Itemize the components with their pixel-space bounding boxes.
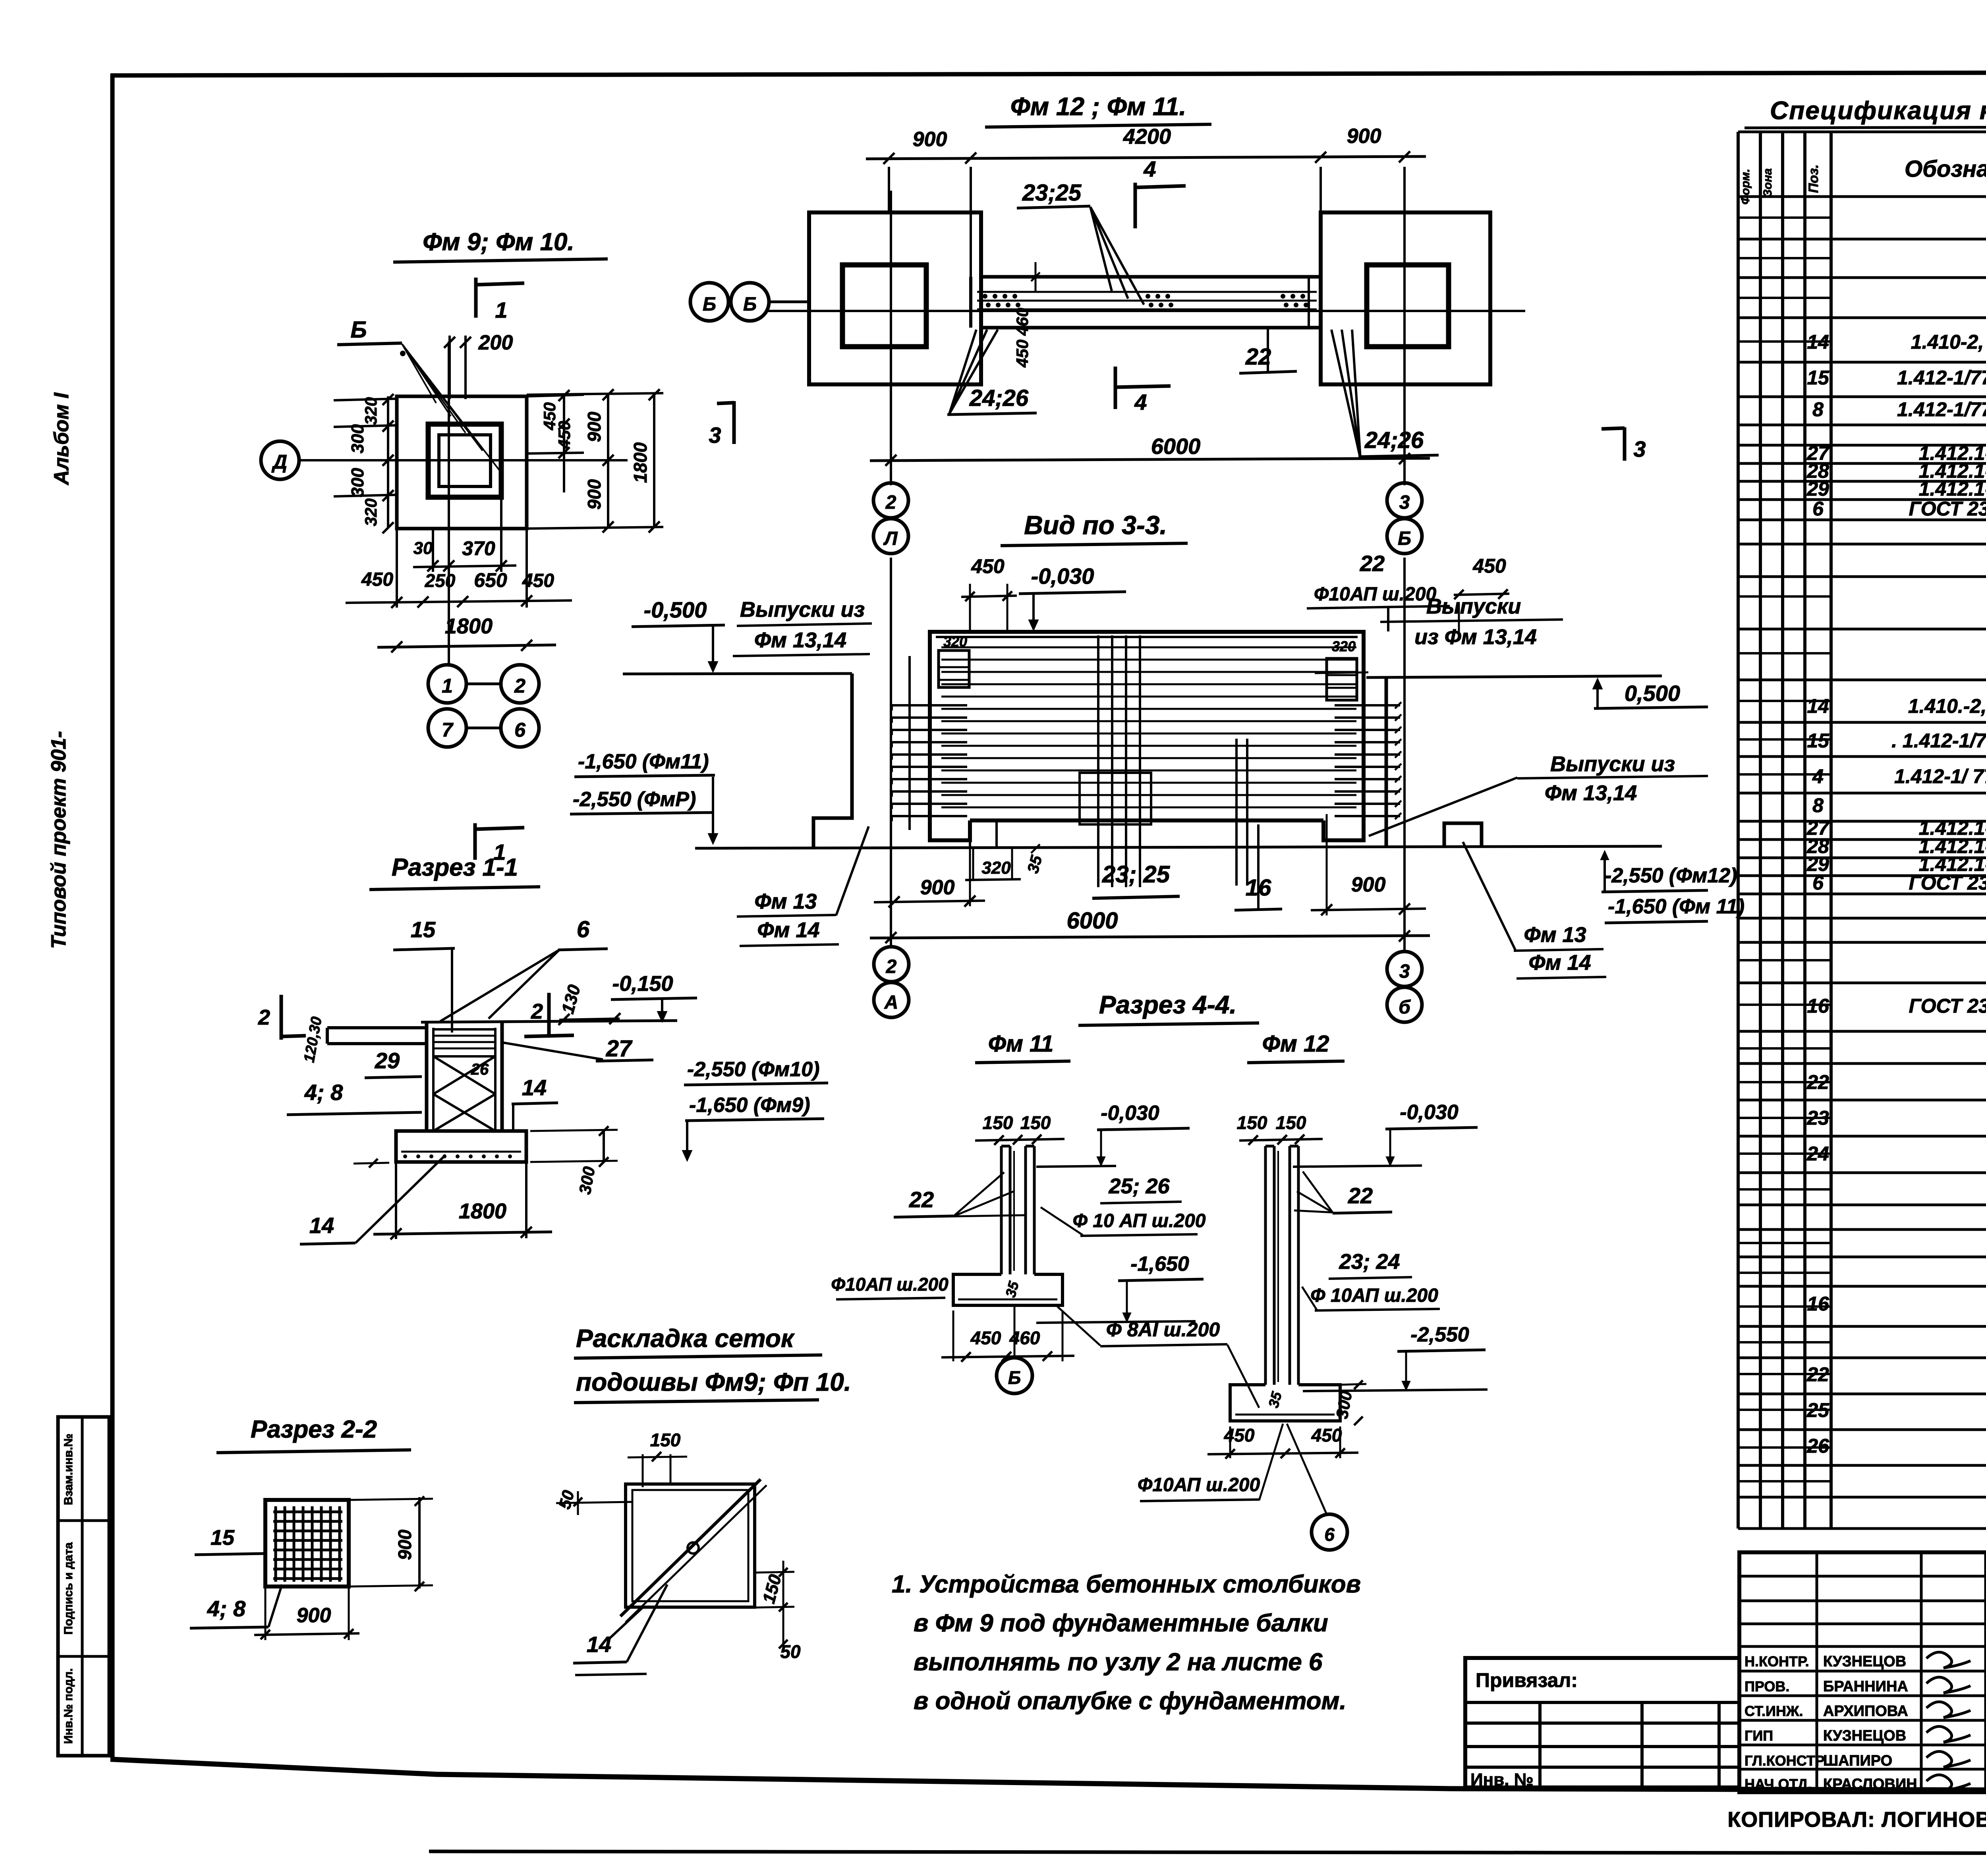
plan Фм9 footing outline bbox=[397, 396, 527, 529]
svg-text:320: 320 bbox=[1332, 638, 1356, 654]
circles 3 Б bbox=[1387, 483, 1422, 518]
svg-text:450: 450 bbox=[970, 1328, 1001, 1348]
Фм13 outline left bbox=[813, 674, 852, 847]
svg-text:6: 6 bbox=[1324, 1524, 1335, 1545]
svg-text:25: 25 bbox=[1806, 1399, 1830, 1421]
svg-text:-2,550: -2,550 bbox=[1410, 1323, 1469, 1346]
vertical bars center group bbox=[1097, 635, 1099, 887]
Фм13 outline right bbox=[1385, 677, 1388, 847]
svg-text:4: 4 bbox=[1812, 765, 1824, 787]
section mark 4 (top) bbox=[1134, 183, 1137, 228]
svg-text:900: 900 bbox=[297, 1604, 331, 1627]
svg-text:200: 200 bbox=[478, 331, 513, 354]
svg-text:15: 15 bbox=[211, 1526, 235, 1550]
svg-text:35: 35 bbox=[1002, 1279, 1022, 1299]
svg-text:Фм 14: Фм 14 bbox=[1528, 951, 1591, 975]
upper level line 0.500 right bbox=[1366, 676, 1662, 677]
svg-text:СТ.ИНЖ.: СТ.ИНЖ. bbox=[1745, 1703, 1803, 1719]
svg-text:900: 900 bbox=[1351, 873, 1386, 896]
svg-text:Н.КОНТР.: Н.КОНТР. bbox=[1745, 1653, 1809, 1669]
svg-text:900: 900 bbox=[920, 876, 955, 899]
svg-text:Фм 12: Фм 12 bbox=[1262, 1031, 1329, 1057]
svg-text:КРАСЛОВИН: КРАСЛОВИН bbox=[1823, 1776, 1917, 1793]
svg-text:Фм 13: Фм 13 bbox=[754, 890, 817, 913]
right pad plan bbox=[1321, 212, 1490, 384]
svg-text:-2,550 (ФмР): -2,550 (ФмР) bbox=[573, 788, 696, 811]
svg-text:320: 320 bbox=[361, 397, 380, 425]
svg-text:300: 300 bbox=[575, 1165, 598, 1196]
spec table grid bbox=[1737, 132, 1740, 1529]
Фм11 wall plates bbox=[1000, 1146, 1003, 1274]
section mark 2 (left) bbox=[280, 995, 283, 1040]
svg-text:24: 24 bbox=[1806, 1143, 1829, 1165]
svg-text:Фм 9; Фм 10.: Фм 9; Фм 10. bbox=[423, 228, 574, 256]
circles 3 б (bottom) bbox=[1387, 952, 1422, 986]
svg-text:14: 14 bbox=[522, 1075, 547, 1100]
circles 2 А (bottom) bbox=[874, 947, 909, 982]
top dimension line 900 4200 900 bbox=[866, 156, 1426, 159]
svg-text:ПРОВ.: ПРОВ. bbox=[1745, 1678, 1789, 1695]
svg-text:23;25: 23;25 bbox=[1022, 180, 1082, 206]
mesh square bbox=[265, 1500, 349, 1586]
svg-text:27: 27 bbox=[606, 1036, 633, 1062]
svg-text:ГИП: ГИП bbox=[1745, 1727, 1773, 1744]
page bottom edge line bbox=[429, 1851, 1986, 1854]
circles Б Б (top) bbox=[690, 283, 728, 321]
svg-text:-0,150: -0,150 bbox=[612, 972, 673, 996]
Фм12 wall plates bbox=[1264, 1146, 1267, 1385]
svg-text:23: 23 bbox=[1806, 1107, 1829, 1129]
svg-text:А: А bbox=[884, 992, 898, 1013]
svg-text:16: 16 bbox=[1807, 1293, 1830, 1315]
svg-text:Раскладка сеток: Раскладка сеток bbox=[576, 1324, 795, 1353]
svg-text:450: 450 bbox=[1472, 555, 1506, 577]
svg-text:АРХИПОВА: АРХИПОВА bbox=[1823, 1703, 1908, 1720]
svg-text:6: 6 bbox=[1812, 872, 1824, 894]
svg-text:150: 150 bbox=[1276, 1112, 1306, 1133]
column top line bbox=[421, 1021, 677, 1022]
svg-text:22: 22 bbox=[1806, 1071, 1829, 1093]
svg-text:4: 4 bbox=[1143, 156, 1156, 181]
svg-text:22: 22 bbox=[909, 1187, 934, 1212]
svg-text:подошвы Фм9; Фп 10.: подошвы Фм9; Фп 10. bbox=[576, 1368, 851, 1396]
svg-text:15: 15 bbox=[1807, 730, 1830, 752]
upper level line -0.500 left bbox=[623, 674, 852, 674]
svg-text:-0,500: -0,500 bbox=[644, 597, 707, 622]
title block: привязал table bbox=[1465, 1658, 1739, 1787]
svg-text:Фм 11: Фм 11 bbox=[988, 1031, 1054, 1057]
svg-text:8: 8 bbox=[1812, 794, 1824, 816]
svg-text:320: 320 bbox=[981, 858, 1011, 878]
column X bracing bbox=[433, 1056, 495, 1094]
section mark 3 (right) bbox=[1602, 428, 1625, 429]
svg-text:4: 4 bbox=[1134, 390, 1147, 415]
plan horizontal axis bbox=[767, 310, 1525, 312]
svg-text:ГОСТ 23279-78: ГОСТ 23279-78 bbox=[1909, 995, 1986, 1017]
svg-text:НАЧ.ОТД.: НАЧ.ОТД. bbox=[1745, 1776, 1812, 1792]
svg-text:в Фм 9 под фундаментные балки: в Фм 9 под фундаментные балки bbox=[914, 1610, 1328, 1637]
svg-text:4200: 4200 bbox=[1123, 125, 1171, 149]
svg-text:Выпуски из: Выпуски из bbox=[1550, 752, 1675, 776]
svg-text:250: 250 bbox=[425, 570, 456, 591]
Фм11 footing bbox=[953, 1274, 1063, 1305]
svg-text:Разрез 2-2: Разрез 2-2 bbox=[251, 1416, 377, 1443]
svg-text:450: 450 bbox=[1224, 1425, 1255, 1446]
svg-text:3: 3 bbox=[1399, 961, 1410, 982]
svg-text:3: 3 bbox=[709, 423, 721, 448]
svg-text:Зона: Зона bbox=[1761, 168, 1774, 197]
diagonal bbox=[620, 1479, 761, 1616]
svg-text:150: 150 bbox=[1020, 1112, 1051, 1133]
svg-text:370: 370 bbox=[462, 537, 495, 560]
svg-text:900: 900 bbox=[394, 1529, 415, 1560]
svg-text:24;26: 24;26 bbox=[1364, 427, 1424, 453]
section mark 1 (top) bbox=[474, 278, 478, 318]
svg-text:Б: Б bbox=[703, 294, 716, 315]
svg-text:460: 460 bbox=[1013, 308, 1032, 336]
svg-text:6: 6 bbox=[514, 719, 526, 741]
svg-text:1800: 1800 bbox=[630, 442, 651, 483]
svg-text:300: 300 bbox=[348, 424, 367, 454]
svg-text:-0,030: -0,030 bbox=[1101, 1102, 1159, 1125]
svg-text:6: 6 bbox=[577, 917, 590, 942]
axes verticals bbox=[890, 558, 892, 947]
svg-text:1.410.-2, Вып.1: 1.410.-2, Вып.1 bbox=[1908, 695, 1986, 717]
svg-text:15: 15 bbox=[1807, 367, 1830, 389]
svg-text:450: 450 bbox=[971, 555, 1005, 577]
svg-text:35: 35 bbox=[1024, 853, 1045, 875]
dowel verticals below slab bbox=[969, 820, 971, 848]
svg-text:2: 2 bbox=[885, 492, 896, 513]
footing bbox=[396, 1131, 526, 1162]
svg-text:120,30: 120,30 bbox=[301, 1015, 325, 1064]
svg-text:Выпуски: Выпуски bbox=[1426, 594, 1521, 618]
svg-text:14: 14 bbox=[587, 1632, 611, 1657]
svg-text:30: 30 bbox=[413, 538, 433, 558]
svg-text:22: 22 bbox=[1348, 1183, 1373, 1208]
svg-text:Фм 13: Фм 13 bbox=[1524, 923, 1586, 947]
svg-text:Ф 8АI ш.200: Ф 8АI ш.200 bbox=[1106, 1318, 1220, 1341]
svg-text:1.412.1-4.080: 1.412.1-4.080 bbox=[1919, 478, 1986, 500]
svg-text:Ф10АП ш.200: Ф10АП ш.200 bbox=[1138, 1475, 1260, 1496]
svg-text:Л: Л bbox=[883, 528, 898, 549]
svg-text:КУЗНЕЦОВ: КУЗНЕЦОВ bbox=[1823, 1653, 1906, 1670]
svg-text:900: 900 bbox=[913, 128, 947, 151]
svg-text:900: 900 bbox=[584, 411, 605, 442]
svg-text:б: б bbox=[1399, 997, 1411, 1018]
svg-text:450: 450 bbox=[555, 421, 574, 449]
right dim chain 450 450 bbox=[527, 395, 584, 396]
svg-text:6000: 6000 bbox=[1066, 908, 1118, 934]
svg-text:1. Устройства бетонных столби: 1. Устройства бетонных столбиков bbox=[892, 1571, 1361, 1598]
plan Фм9 axis lines bbox=[299, 459, 564, 461]
svg-text:Ф10АП ш.200: Ф10АП ш.200 bbox=[831, 1274, 949, 1295]
svg-text:1.412-1/77, Вып.3: 1.412-1/77, Вып.3 bbox=[1897, 367, 1986, 389]
svg-text:из Фм 13,14: из Фм 13,14 bbox=[1414, 625, 1537, 649]
right pad column square bbox=[1367, 265, 1449, 347]
svg-text:23; 24: 23; 24 bbox=[1339, 1250, 1400, 1274]
svg-text:1800: 1800 bbox=[445, 614, 493, 638]
svg-text:выполнять по узлу 2 на листе 6: выполнять по узлу 2 на листе 6 bbox=[914, 1648, 1323, 1676]
right rebar stubs bbox=[1335, 704, 1400, 706]
title block: signature table bbox=[1739, 1552, 1986, 1792]
svg-text:25; 26: 25; 26 bbox=[1108, 1174, 1170, 1198]
corner beam box left (320) bbox=[939, 650, 969, 687]
svg-text:Инв. №: Инв. № bbox=[1470, 1770, 1534, 1789]
left dim chain 320 300 300 320 bbox=[387, 396, 389, 529]
section mark 1 (bottom) bbox=[473, 823, 477, 860]
svg-text:Ф 10АП ш.200: Ф 10АП ш.200 bbox=[1310, 1285, 1438, 1306]
mesh grid bbox=[274, 1506, 277, 1582]
svg-text:-0,030: -0,030 bbox=[1031, 564, 1094, 589]
svg-text:Подпись и дата: Подпись и дата bbox=[62, 1542, 75, 1635]
svg-text:Привязал:: Привязал: bbox=[1476, 1669, 1578, 1691]
svg-text:Разрез 4-4.: Разрез 4-4. bbox=[1099, 990, 1236, 1019]
svg-text:Фм 12 ; Фм 11.: Фм 12 ; Фм 11. bbox=[1010, 92, 1186, 121]
svg-text:ГОСТ 23279-78: ГОСТ 23279-78 bbox=[1909, 872, 1986, 894]
right dim chain 900 900 bbox=[607, 393, 609, 528]
svg-text:ГОСТ 23279-78: ГОСТ 23279-78 bbox=[1909, 498, 1986, 520]
left rebar stubs bbox=[892, 704, 967, 706]
svg-text:23; 25: 23; 25 bbox=[1102, 861, 1171, 888]
svg-text:2: 2 bbox=[886, 956, 897, 977]
svg-text:50: 50 bbox=[555, 1488, 578, 1511]
svg-text:Ф 10 АП ш.200: Ф 10 АП ш.200 bbox=[1073, 1210, 1206, 1231]
bars detail box bbox=[1080, 773, 1151, 824]
svg-text:Типовой проект 901-: Типовой проект 901- bbox=[47, 731, 70, 949]
svg-text:2: 2 bbox=[514, 675, 525, 697]
plan vertical axes bbox=[890, 191, 892, 485]
beam section hatch in column bbox=[433, 1029, 495, 1056]
svg-text:Фм 13,14: Фм 13,14 bbox=[754, 628, 846, 652]
corner beam box right (320) bbox=[1327, 658, 1357, 700]
svg-text:БРАННИНА: БРАННИНА bbox=[1823, 1678, 1908, 1695]
svg-text:900: 900 bbox=[584, 479, 605, 510]
svg-text:Ф10АП ш.200: Ф10АП ш.200 bbox=[1314, 584, 1437, 605]
svg-text:7: 7 bbox=[442, 719, 454, 741]
page frame border bbox=[110, 74, 115, 1758]
svg-text:150: 150 bbox=[759, 1572, 785, 1606]
svg-text:Б: Б bbox=[743, 294, 757, 315]
svg-text:3: 3 bbox=[1633, 436, 1646, 461]
svg-text:16: 16 bbox=[1807, 995, 1830, 1017]
beam rebar dots bbox=[983, 294, 987, 299]
svg-text:Вид по 3-3.: Вид по 3-3. bbox=[1024, 510, 1167, 540]
svg-text:450: 450 bbox=[1311, 1425, 1342, 1446]
svg-text:1: 1 bbox=[442, 675, 453, 697]
svg-text:1.410-2, Вып.1: 1.410-2, Вып.1 bbox=[1911, 331, 1986, 353]
svg-text:2: 2 bbox=[258, 1006, 270, 1029]
svg-text:Д: Д bbox=[271, 451, 287, 473]
svg-text:3: 3 bbox=[1399, 492, 1410, 513]
Фм12 circle 6 bbox=[1312, 1514, 1347, 1550]
svg-text:320: 320 bbox=[361, 498, 380, 526]
svg-text:в одной опалубке с фундаментом: в одной опалубке с фундаментом. bbox=[914, 1687, 1347, 1715]
slab outline bbox=[930, 632, 1364, 840]
svg-text:-1,650: -1,650 bbox=[1130, 1253, 1189, 1276]
svg-text:29: 29 bbox=[1806, 478, 1829, 500]
section mark 2 (right) bbox=[547, 993, 551, 1037]
svg-text:2: 2 bbox=[531, 1000, 543, 1023]
svg-text:6: 6 bbox=[1812, 498, 1824, 520]
svg-text:300: 300 bbox=[1332, 1390, 1355, 1420]
svg-text:1800: 1800 bbox=[459, 1199, 506, 1223]
circles 1 2 7 6 bbox=[428, 665, 466, 703]
svg-text:КОПИРОВАЛ: ЛОГИНОВА: КОПИРОВАЛ: ЛОГИНОВА bbox=[1727, 1808, 1986, 1832]
svg-text:15: 15 bbox=[411, 917, 436, 942]
connecting beam bbox=[981, 275, 1321, 279]
svg-text:24;26: 24;26 bbox=[969, 385, 1029, 411]
svg-text:650: 650 bbox=[474, 569, 507, 591]
svg-text:14: 14 bbox=[309, 1213, 334, 1238]
svg-text:-1,650 (Фм9): -1,650 (Фм9) bbox=[689, 1094, 810, 1117]
svg-text:35: 35 bbox=[1265, 1390, 1285, 1409]
svg-text:900: 900 bbox=[1347, 125, 1381, 148]
svg-text:Спецификация к фундаментам Ф.м: Спецификация к фундаментам Ф.м 9,10,11,1… bbox=[1770, 96, 1986, 125]
column body bbox=[425, 1022, 429, 1131]
svg-text:29: 29 bbox=[375, 1048, 400, 1073]
svg-text:Б: Б bbox=[350, 317, 367, 343]
left margin stamp table bbox=[58, 1417, 109, 1756]
svg-text:450: 450 bbox=[361, 569, 393, 590]
svg-text:Взам.инв.№: Взам.инв.№ bbox=[62, 1434, 75, 1505]
svg-text:14: 14 bbox=[1807, 331, 1829, 353]
svg-text:150: 150 bbox=[1237, 1112, 1267, 1133]
svg-text:КУЗНЕЦОВ: КУЗНЕЦОВ bbox=[1823, 1727, 1906, 1744]
svg-text:Фм 13,14: Фм 13,14 bbox=[1545, 781, 1637, 805]
axis circle Д bbox=[261, 441, 299, 479]
svg-text:14: 14 bbox=[1807, 695, 1829, 717]
svg-text:1.412-1/ 77, Вып.3: 1.412-1/ 77, Вып.3 bbox=[1894, 765, 1986, 787]
svg-text:22: 22 bbox=[1806, 1363, 1829, 1386]
svg-text:Инв.№ подл.: Инв.№ подл. bbox=[62, 1668, 75, 1744]
svg-text:320: 320 bbox=[943, 633, 967, 650]
left pad Фм12 plan bbox=[809, 212, 981, 384]
small tick marks left of footing bbox=[354, 1163, 389, 1164]
svg-text:Б: Б bbox=[1398, 528, 1411, 549]
svg-text:26: 26 bbox=[1806, 1435, 1830, 1457]
svg-text:-2,550 (Фм10): -2,550 (Фм10) bbox=[687, 1058, 819, 1081]
plan Фм9 column square bbox=[428, 424, 501, 497]
base level line bbox=[695, 846, 1662, 848]
svg-text:-1,650 (Фм 11): -1,650 (Фм 11) bbox=[1608, 895, 1745, 918]
horizontal rebar lines bbox=[941, 647, 1356, 648]
svg-text:22: 22 bbox=[1360, 551, 1385, 576]
svg-text:8: 8 bbox=[1812, 398, 1824, 421]
svg-text:1.412-1/77, Вып.3: 1.412-1/77, Вып.3 bbox=[1897, 398, 1986, 421]
svg-text:4; 8: 4; 8 bbox=[304, 1080, 343, 1105]
svg-text:Фм 14: Фм 14 bbox=[757, 918, 819, 942]
right bar pair bbox=[1235, 739, 1238, 886]
svg-text:1: 1 bbox=[495, 297, 507, 322]
mesh C-1 sketch square bbox=[626, 1484, 755, 1607]
svg-text:150: 150 bbox=[983, 1112, 1013, 1133]
svg-text:-1,650 (Фм11): -1,650 (Фм11) bbox=[578, 750, 709, 773]
footing mesh dots bbox=[403, 1154, 407, 1158]
svg-text:150: 150 bbox=[650, 1430, 681, 1450]
svg-text:Обозначение: Обозначение bbox=[1905, 156, 1986, 182]
svg-text:4; 8: 4; 8 bbox=[207, 1596, 246, 1621]
Фм11 circle Б bbox=[997, 1358, 1032, 1393]
Фм12 footing bbox=[1230, 1385, 1340, 1421]
svg-text:ШАПИРО: ШАПИРО bbox=[1823, 1752, 1892, 1769]
svg-text:6000: 6000 bbox=[1151, 434, 1201, 459]
right dim 1800 bbox=[653, 393, 655, 528]
section mark 4 (bottom) bbox=[1114, 367, 1117, 409]
svg-text:0,500: 0,500 bbox=[1625, 681, 1680, 706]
svg-text:-0,030: -0,030 bbox=[1400, 1101, 1459, 1124]
circles 2 Л bbox=[873, 483, 908, 518]
svg-text:Разрез 1-1: Разрез 1-1 bbox=[392, 854, 518, 881]
svg-text:-2,550 (Фм12): -2,550 (Фм12) bbox=[1605, 864, 1737, 887]
svg-text:Форм.: Форм. bbox=[1739, 169, 1752, 205]
svg-text:450: 450 bbox=[1013, 340, 1032, 368]
svg-text:130: 130 bbox=[558, 982, 584, 1016]
svg-text:. 1.412-1/77, Вып.3: . 1.412-1/77, Вып.3 bbox=[1891, 730, 1986, 752]
svg-text:Выпуски из: Выпуски из bbox=[740, 598, 865, 621]
svg-text:300: 300 bbox=[348, 468, 367, 497]
baseline mark bbox=[575, 1674, 647, 1675]
dim 4 small arrows right box bbox=[1315, 672, 1368, 673]
svg-text:Поз.: Поз. bbox=[1806, 164, 1821, 193]
beam stub left bbox=[327, 1026, 427, 1029]
svg-text:Б: Б bbox=[1008, 1367, 1021, 1388]
svg-text:ГЛ.КОНСТР: ГЛ.КОНСТР bbox=[1745, 1752, 1825, 1769]
left pad column square bbox=[842, 265, 926, 347]
svg-text:Альбом I: Альбом I bbox=[50, 392, 73, 486]
